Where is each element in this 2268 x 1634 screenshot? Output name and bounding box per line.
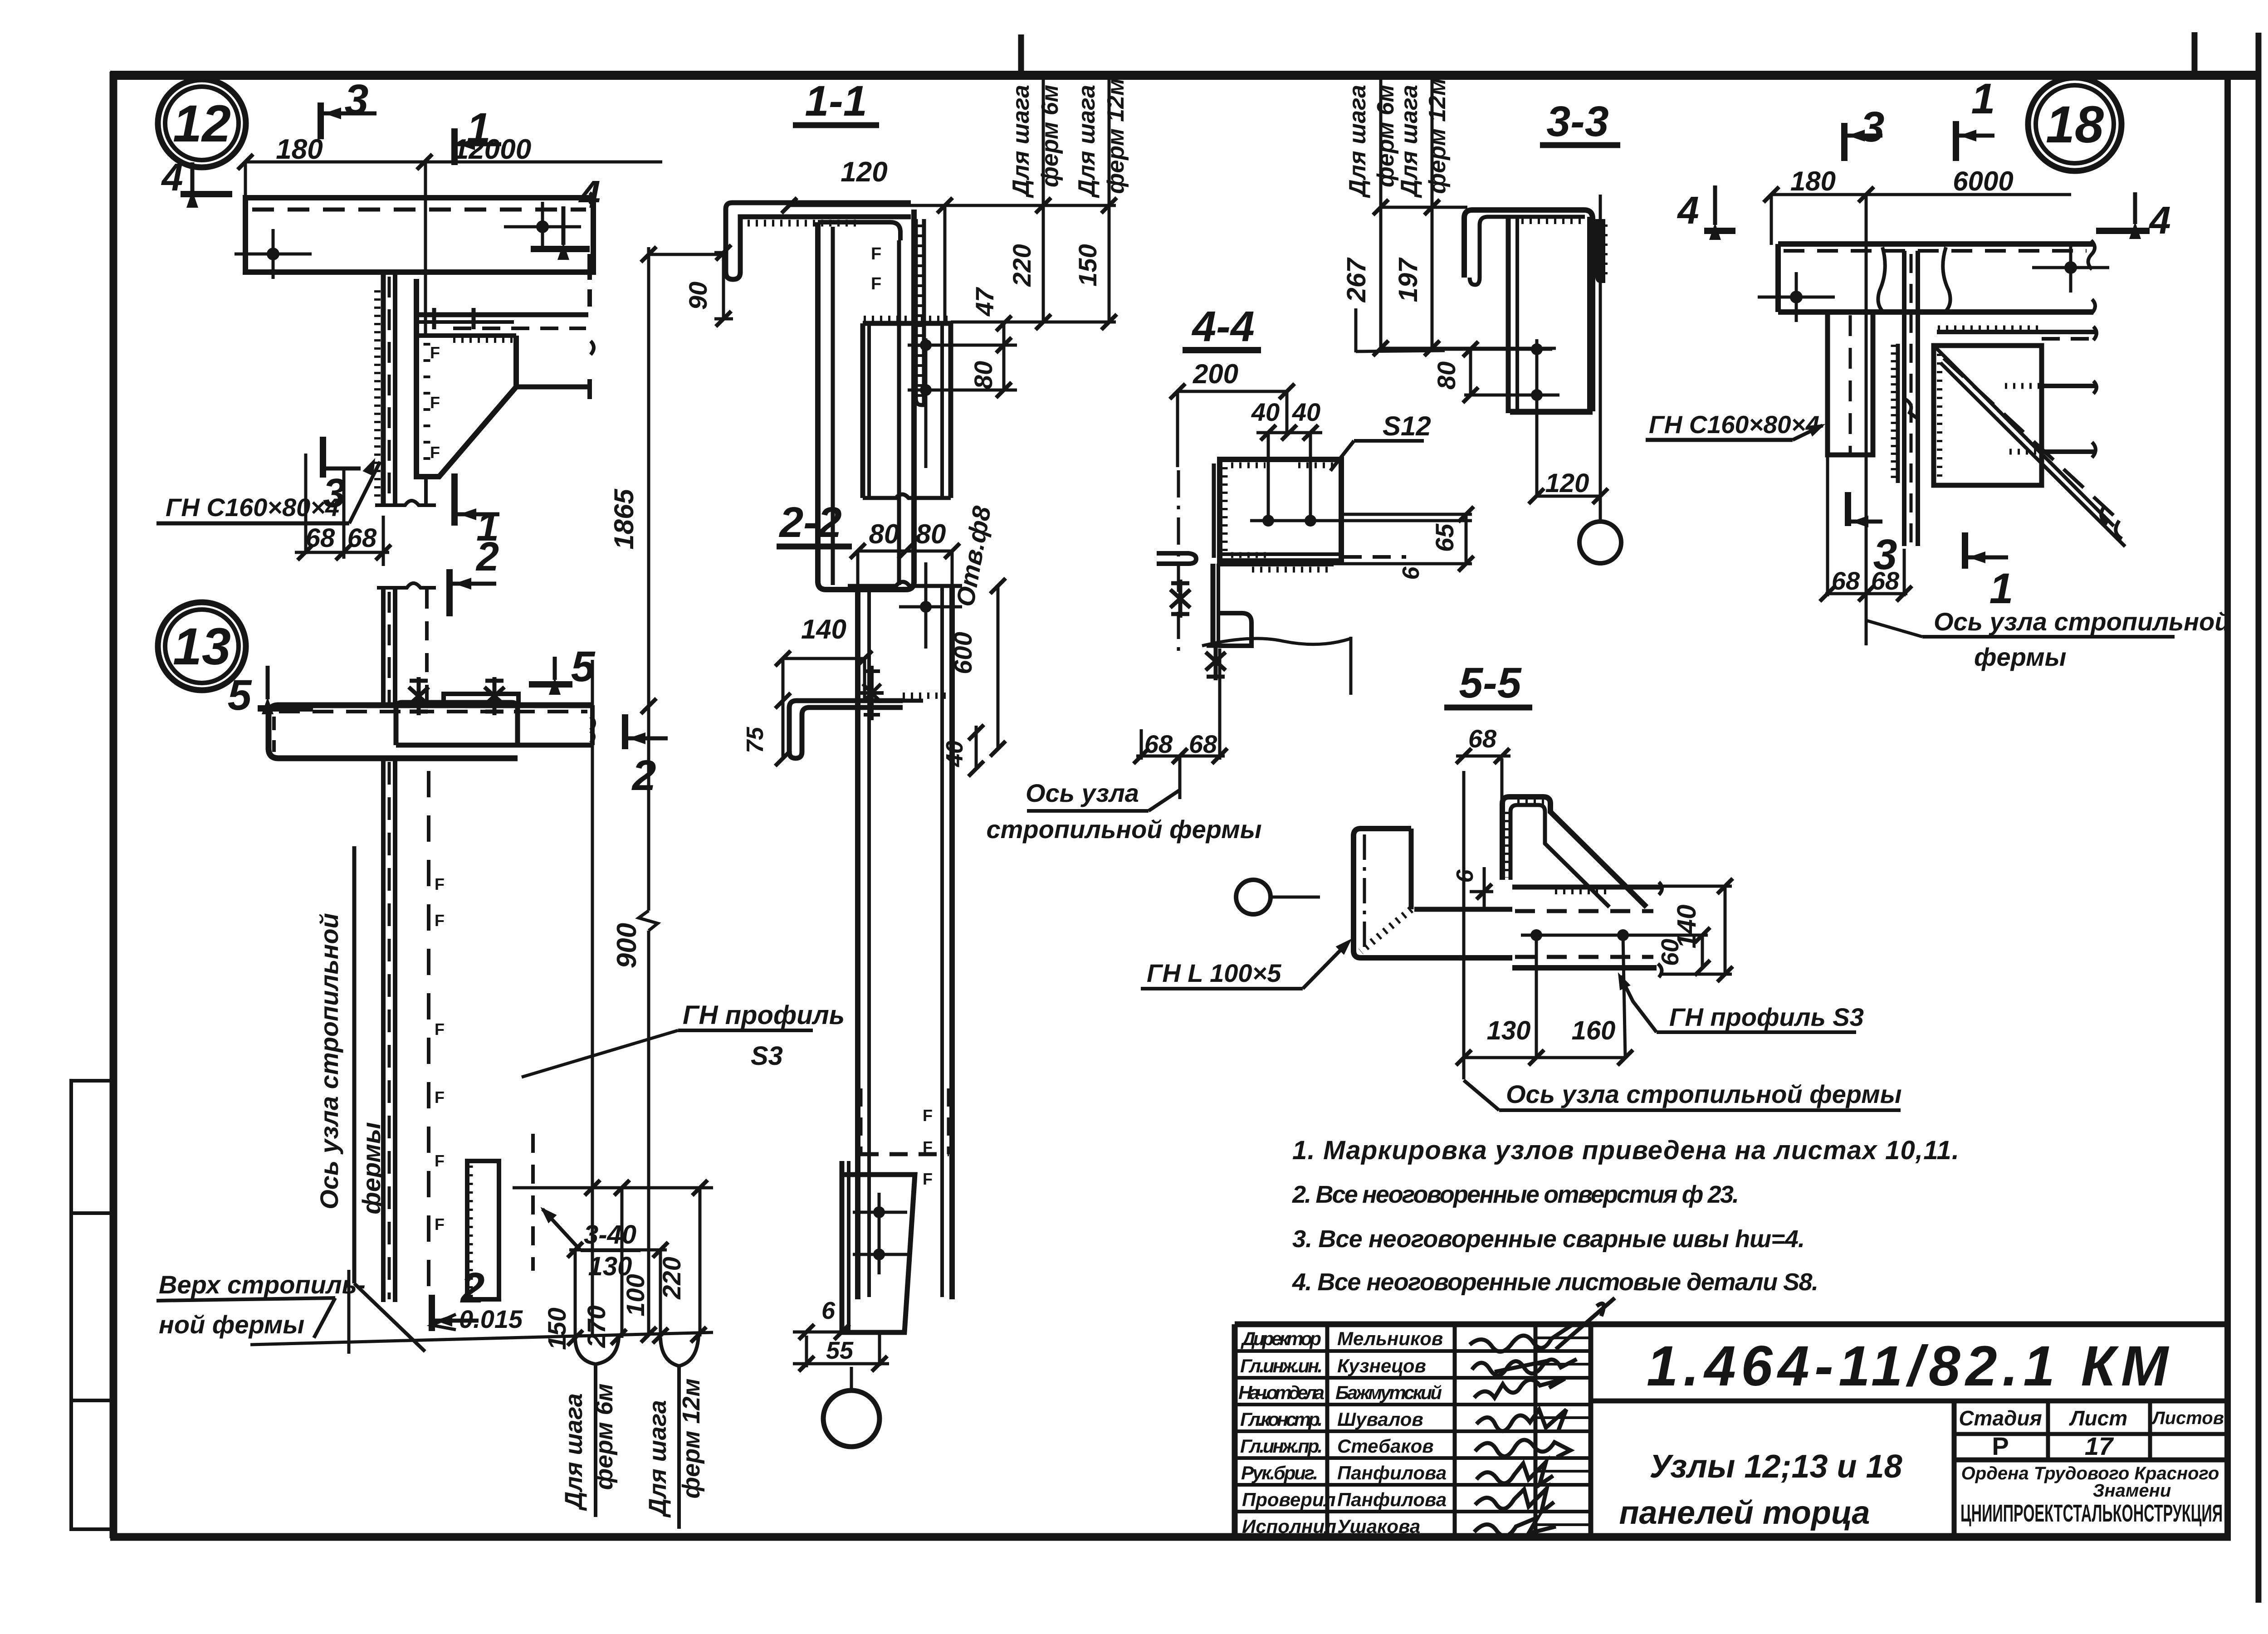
- svg-text:6000: 6000: [1953, 166, 2013, 196]
- svg-text:F: F: [435, 911, 445, 930]
- svg-text:60: 60: [1657, 939, 1684, 966]
- svg-text:ферм 12м: ферм 12м: [1103, 78, 1129, 194]
- svg-text:4-4: 4-4: [1191, 302, 1254, 351]
- svg-text:900: 900: [611, 923, 642, 968]
- svg-text:1. Маркировка узлов приведен: 1. Маркировка узлов приведена на листах …: [1292, 1136, 1959, 1165]
- svg-text:панелей торца: панелей торца: [1619, 1495, 1870, 1531]
- svg-text:Нач.отдела: Нач.отдела: [1238, 1382, 1325, 1403]
- svg-text:Стебаков: Стебаков: [1337, 1435, 1434, 1457]
- svg-text:Рук.бриг.: Рук.бриг.: [1241, 1462, 1318, 1483]
- svg-text:80: 80: [869, 519, 899, 549]
- svg-text:ГН С160×80×4: ГН С160×80×4: [1649, 410, 1819, 439]
- svg-text:3: 3: [345, 76, 369, 124]
- svg-text:Для шага: Для шага: [644, 1400, 671, 1518]
- svg-text:ферм 12м: ферм 12м: [678, 1378, 705, 1498]
- svg-text:Кузнецов: Кузнецов: [1337, 1355, 1426, 1376]
- svg-text:Гл.инж.пр.: Гл.инж.пр.: [1240, 1435, 1323, 1457]
- svg-text:47: 47: [970, 287, 999, 317]
- svg-text:5: 5: [228, 671, 252, 719]
- svg-text:Ось узла стропильной фермы: Ось узла стропильной фермы: [1506, 1080, 1902, 1108]
- svg-text:Ордена Трудового Красного: Ордена Трудового Красного: [1961, 1463, 2219, 1483]
- svg-text:4: 4: [2148, 199, 2170, 242]
- svg-text:Гл.инж.ин.: Гл.инж.ин.: [1240, 1355, 1323, 1376]
- svg-text:200: 200: [1193, 359, 1238, 389]
- svg-text:Лист: Лист: [2069, 1406, 2127, 1430]
- svg-text:ГН профиль: ГН профиль: [683, 1000, 845, 1030]
- svg-text:220: 220: [1007, 244, 1036, 287]
- svg-text:Исполнил: Исполнил: [1242, 1516, 1336, 1537]
- svg-text:6: 6: [1452, 869, 1478, 883]
- svg-text:Мельников: Мельников: [1337, 1328, 1443, 1349]
- svg-text:2-2: 2-2: [778, 498, 841, 546]
- svg-text:Гл.констр.: Гл.констр.: [1240, 1409, 1323, 1430]
- svg-text:4. Все неоговоренные листовы: 4. Все неоговоренные листовые детали S8.: [1292, 1268, 1818, 1296]
- svg-text:40: 40: [1292, 398, 1320, 426]
- svg-text:F: F: [923, 1138, 933, 1156]
- svg-text:1.464-11/82.1 КМ: 1.464-11/82.1 КМ: [1647, 1335, 2170, 1398]
- svg-text:1: 1: [467, 104, 491, 152]
- svg-text:140: 140: [801, 614, 846, 644]
- svg-text:120: 120: [1545, 468, 1589, 498]
- svg-text:160: 160: [1572, 1016, 1616, 1045]
- svg-text:40: 40: [1251, 398, 1280, 426]
- svg-text:267: 267: [1342, 257, 1371, 303]
- svg-text:Для шага: Для шага: [1074, 85, 1100, 198]
- svg-text:68: 68: [1832, 566, 1860, 595]
- svg-text:18: 18: [2046, 96, 2104, 154]
- svg-text:3: 3: [1873, 531, 1897, 579]
- svg-text:75: 75: [742, 727, 768, 753]
- svg-text:Стадия: Стадия: [1959, 1406, 2042, 1430]
- svg-text:6: 6: [821, 1297, 836, 1324]
- svg-text:1: 1: [1989, 565, 2014, 613]
- svg-text:Панфилова: Панфилова: [1337, 1462, 1447, 1483]
- svg-text:68: 68: [1144, 730, 1173, 758]
- svg-text:фермы: фермы: [1974, 643, 2066, 671]
- svg-text:0.015: 0.015: [459, 1305, 523, 1333]
- svg-text:Ось узла стропильной: Ось узла стропильной: [1934, 607, 2230, 636]
- svg-text:Ось узла стропильной: Ось узла стропильной: [315, 913, 343, 1210]
- svg-text:Узлы 12;13 и 18: Узлы 12;13 и 18: [1649, 1449, 1902, 1485]
- svg-text:12000: 12000: [453, 134, 531, 165]
- svg-text:F: F: [435, 1088, 445, 1107]
- svg-text:Панфилова: Панфилова: [1337, 1489, 1447, 1510]
- svg-text:1865: 1865: [609, 488, 639, 550]
- svg-text:Для шага: Для шага: [1008, 85, 1034, 198]
- svg-text:80: 80: [969, 361, 997, 389]
- svg-text:F: F: [435, 1215, 445, 1234]
- svg-text:2. Все неоговоренные отверст: 2. Все неоговоренные отверстия ф 23.: [1292, 1181, 1739, 1208]
- svg-text:F: F: [430, 393, 440, 412]
- svg-text:ной фермы: ной фермы: [159, 1310, 304, 1339]
- svg-text:ферм 6м: ферм 6м: [1373, 85, 1399, 187]
- svg-text:Листов: Листов: [2151, 1408, 2224, 1428]
- svg-text:S3: S3: [751, 1041, 783, 1071]
- svg-text:6: 6: [1398, 566, 1424, 580]
- svg-text:ЦНИИПРОЕКТСТАЛЬКОНСТРУКЦИЯ: ЦНИИПРОЕКТСТАЛЬКОНСТРУКЦИЯ: [1960, 1500, 2223, 1527]
- svg-text:Ось узла: Ось узла: [1026, 779, 1139, 807]
- svg-text:F: F: [430, 343, 440, 362]
- svg-text:180: 180: [1790, 166, 1836, 196]
- svg-text:F: F: [435, 1151, 445, 1170]
- svg-text:Верх стропиль-: Верх стропиль-: [159, 1270, 366, 1299]
- svg-text:стропильной фермы: стропильной фермы: [986, 815, 1261, 844]
- svg-text:2: 2: [631, 751, 656, 800]
- svg-text:Для шага: Для шага: [560, 1393, 587, 1511]
- svg-text:12: 12: [173, 95, 231, 153]
- svg-text:68: 68: [347, 523, 377, 553]
- svg-text:100: 100: [621, 1274, 650, 1316]
- svg-text:55: 55: [826, 1337, 854, 1364]
- svg-text:68: 68: [1468, 724, 1497, 753]
- svg-text:ГН профиль S3: ГН профиль S3: [1669, 1003, 1864, 1031]
- svg-text:90: 90: [684, 282, 712, 310]
- svg-text:ферм 6м: ферм 6м: [1037, 85, 1063, 187]
- svg-text:Для шага: Для шага: [1344, 85, 1371, 198]
- svg-text:3-3: 3-3: [1546, 98, 1608, 146]
- svg-text:Знамени: Знамени: [2093, 1481, 2171, 1501]
- svg-text:13: 13: [173, 618, 231, 676]
- svg-text:F: F: [923, 1170, 933, 1188]
- svg-text:3: 3: [1861, 103, 1885, 151]
- svg-text:68: 68: [1189, 730, 1217, 758]
- svg-text:F: F: [430, 443, 440, 462]
- svg-text:F: F: [871, 244, 881, 263]
- svg-text:80: 80: [916, 519, 946, 549]
- svg-text:180: 180: [276, 134, 323, 165]
- svg-text:130: 130: [1487, 1016, 1531, 1045]
- svg-text:Ушакова: Ушакова: [1337, 1516, 1420, 1537]
- svg-text:120: 120: [841, 156, 887, 188]
- svg-text:80: 80: [1432, 361, 1461, 390]
- svg-text:4: 4: [578, 173, 600, 216]
- svg-text:Проверил: Проверил: [1242, 1489, 1336, 1510]
- svg-text:2: 2: [475, 534, 499, 580]
- svg-text:1-1: 1-1: [805, 77, 867, 125]
- svg-text:150: 150: [543, 1307, 571, 1350]
- svg-text:3. Все неоговоренные сварные: 3. Все неоговоренные сварные швы hш=4.: [1292, 1225, 1805, 1253]
- svg-text:Шувалов: Шувалов: [1337, 1409, 1423, 1430]
- svg-text:5-5: 5-5: [1459, 659, 1521, 707]
- svg-text:220: 220: [657, 1257, 686, 1299]
- svg-text:4: 4: [1677, 189, 1699, 232]
- svg-text:ГН L 100×5: ГН L 100×5: [1147, 959, 1281, 987]
- svg-text:197: 197: [1393, 257, 1423, 302]
- svg-text:F: F: [923, 1106, 933, 1125]
- svg-text:17: 17: [2085, 1432, 2114, 1460]
- svg-text:F: F: [871, 274, 881, 293]
- svg-text:ферм 12м: ферм 12м: [1424, 78, 1451, 194]
- svg-text:S12: S12: [1383, 411, 1431, 441]
- svg-text:150: 150: [1073, 244, 1102, 286]
- svg-text:F: F: [435, 1020, 445, 1039]
- svg-text:68: 68: [306, 523, 335, 553]
- svg-text:4: 4: [161, 156, 183, 199]
- svg-text:ГН С160×80×4: ГН С160×80×4: [166, 493, 339, 522]
- svg-text:270: 270: [582, 1305, 611, 1348]
- svg-text:Директор: Директор: [1241, 1328, 1321, 1349]
- svg-text:65: 65: [1430, 523, 1459, 552]
- svg-text:ферм 6м: ферм 6м: [591, 1383, 618, 1490]
- svg-text:1: 1: [1971, 75, 1995, 123]
- svg-text:Р: Р: [1992, 1432, 2009, 1460]
- svg-text:Бажмутский: Бажмутский: [1335, 1382, 1442, 1403]
- svg-text:Для шага: Для шага: [1396, 85, 1422, 198]
- svg-text:F: F: [435, 875, 445, 893]
- svg-text:фермы: фермы: [357, 1122, 386, 1214]
